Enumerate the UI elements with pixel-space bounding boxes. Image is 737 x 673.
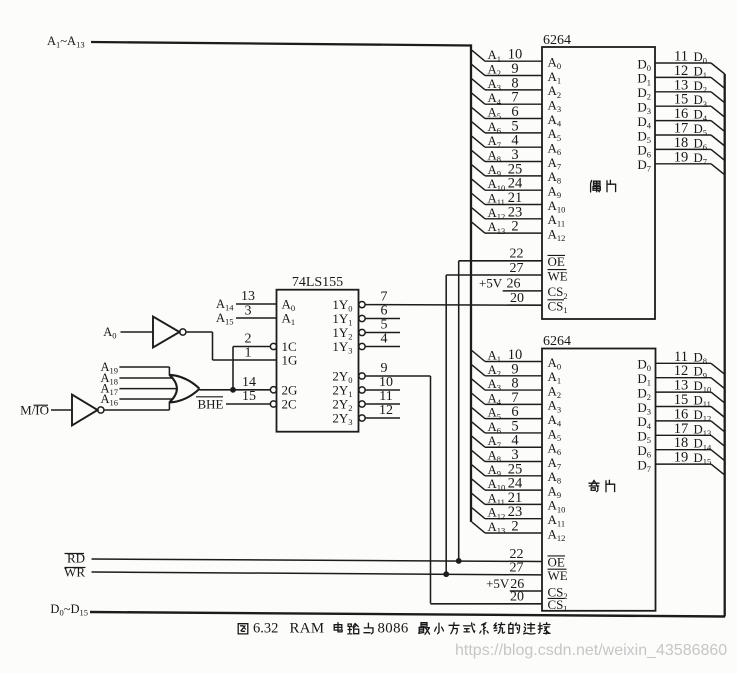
wire U3 2G pin 14 from OR gate output bbox=[200, 375, 277, 393]
wire U2 address input A3 pin 8 bbox=[472, 376, 542, 393]
svg-text:9: 9 bbox=[381, 361, 388, 376]
wire U1 WE to WR rail bbox=[445, 275, 447, 574]
pin label U2 A3 bbox=[548, 398, 562, 415]
svg-text:12: 12 bbox=[379, 403, 393, 418]
wire U2 data output D14 pin 18 bbox=[656, 435, 725, 461]
pin label U3 1Y0 bbox=[332, 297, 352, 314]
pin label U3 2Y3 bbox=[332, 411, 352, 428]
pin label U1 A1 bbox=[548, 69, 562, 86]
net label A18 bbox=[100, 371, 118, 387]
wire U1 OE pin 22 bbox=[459, 247, 542, 262]
node junction dot 1C/2G bbox=[230, 387, 236, 393]
wire U3 1C pin 2 bbox=[233, 332, 277, 350]
pin label U2 CS2 bbox=[548, 584, 568, 601]
svg-text:2G: 2G bbox=[282, 383, 298, 398]
wire U1 data output D4 pin 16 bbox=[655, 106, 725, 132]
wire A15 to U3 A1 pin 3 bbox=[216, 304, 277, 327]
wire U3 2Y3 pin 12 stub bbox=[359, 403, 400, 421]
wire RD rail to U2 OE bbox=[92, 559, 542, 562]
wire G3 output to OR gate G2 bbox=[104, 402, 169, 410]
svg-text:+5V: +5V bbox=[486, 576, 510, 591]
wire A16 to OR gate bbox=[119, 398, 172, 400]
watermark bbox=[455, 642, 727, 659]
pin label U1 A2 bbox=[548, 83, 562, 100]
wire U1 address input A5 pin 6 bbox=[472, 104, 542, 121]
pin label U2 A11 bbox=[548, 512, 566, 529]
pin label U2 D1 bbox=[637, 371, 651, 388]
net label A19 bbox=[100, 360, 118, 376]
pin label U2 A4 bbox=[548, 412, 562, 429]
svg-text:4: 4 bbox=[381, 332, 388, 347]
pin label U2 D3 bbox=[637, 400, 651, 417]
wire G1 output to U3 1G bbox=[186, 332, 213, 360]
pin label U2 D5 bbox=[637, 429, 651, 446]
pin label U1 CS1 bbox=[548, 299, 568, 316]
net label WR bbox=[64, 565, 85, 580]
svg-text:RAM: RAM bbox=[290, 621, 325, 637]
svg-text:2C: 2C bbox=[282, 397, 297, 412]
pin label U1 D4 bbox=[637, 114, 651, 131]
svg-text:20: 20 bbox=[510, 590, 524, 605]
svg-text:6264: 6264 bbox=[543, 33, 571, 48]
pin label U2 A5 bbox=[548, 426, 562, 443]
wire U3 1Y3 pin 4 stub bbox=[359, 332, 400, 350]
wire U3 2Y2 pin 11 stub bbox=[359, 389, 400, 407]
node junction WR / U1-WE bbox=[443, 571, 449, 577]
wire U1 data output D2 pin 13 bbox=[655, 77, 725, 103]
svg-text:6264: 6264 bbox=[543, 334, 571, 349]
pin label U2 A1 bbox=[548, 369, 562, 386]
net label RD bbox=[65, 551, 86, 566]
svg-text:27: 27 bbox=[510, 261, 524, 276]
svg-text:2: 2 bbox=[511, 219, 518, 235]
svg-text:https://blog.csdn.net/weixin_4: https://blog.csdn.net/weixin_43586860 bbox=[455, 642, 727, 659]
svg-text:BHE: BHE bbox=[198, 397, 224, 412]
pin label U2 D7 bbox=[637, 457, 651, 474]
pin label U2 A7 bbox=[548, 455, 562, 472]
caption figure title bbox=[238, 621, 550, 637]
svg-text:WE: WE bbox=[548, 268, 568, 283]
wire address bus A1~A13 horizontal bbox=[91, 42, 471, 46]
pin label U3 1Y3 bbox=[332, 339, 352, 356]
pin label U1 A4 bbox=[548, 112, 562, 129]
pin label U3 A0 bbox=[282, 297, 296, 314]
pin label U2 A12 bbox=[548, 526, 566, 543]
wire U2 OE pin 22 (on RD line) bbox=[510, 547, 524, 562]
wire U1 CS1 pin 20 from decoder 1Y0 bbox=[365, 291, 542, 306]
pin label U2 A8 bbox=[548, 469, 562, 486]
wire U1 address input A2 pin 9 bbox=[472, 61, 542, 78]
pin label U1 A9 bbox=[548, 183, 562, 200]
wire U2 data output D10 pin 13 bbox=[656, 378, 725, 404]
wire U2 address input A1 pin 10 bbox=[472, 347, 542, 364]
wire U2 data output D11 pin 15 bbox=[656, 392, 725, 418]
wire A0 to inverter G1 bbox=[121, 331, 154, 333]
wire U2 address input A8 pin 3 bbox=[472, 447, 542, 464]
wire U2 CS2 pin 26 with +5V bbox=[486, 576, 542, 592]
wire A18 to OR gate bbox=[119, 377, 172, 379]
wire U2 data output D9 pin 12 bbox=[656, 363, 725, 389]
wire U2 address input A6 pin 5 bbox=[472, 418, 542, 435]
wire U2 address input A2 pin 9 bbox=[472, 361, 542, 378]
pin label U3 1Y2 bbox=[332, 325, 352, 342]
inverter G3 (M/IO) bbox=[72, 395, 104, 426]
wire U2 address input A12 pin 23 bbox=[472, 504, 542, 521]
pin label U1 D3 bbox=[637, 100, 651, 117]
wire U1 address input A10 pin 24 bbox=[472, 176, 542, 193]
svg-text:26: 26 bbox=[507, 277, 521, 292]
pin label U3 2Y1 bbox=[332, 383, 352, 400]
wire A14 to U3 A0 pin 13 bbox=[216, 289, 277, 313]
svg-text:8086: 8086 bbox=[378, 621, 409, 637]
wire U1 data output D7 pin 19 bbox=[655, 149, 725, 175]
pin label U1 D0 bbox=[637, 56, 651, 73]
svg-text:19: 19 bbox=[674, 450, 689, 466]
svg-text:OE: OE bbox=[548, 254, 565, 269]
wire U1 address input A4 pin 7 bbox=[472, 90, 542, 107]
wire U1 data output D5 pin 17 bbox=[655, 121, 725, 147]
wire U1 data output D6 pin 18 bbox=[655, 135, 725, 161]
pin label U1 D5 bbox=[637, 128, 651, 145]
pin label U1 CS2 bbox=[548, 284, 568, 301]
wire U3 2Y1 pin 10 stub bbox=[359, 375, 400, 393]
wire U2 CS1 pin 20 from decoder 2Y0 bbox=[431, 590, 543, 605]
pin label U2 D0 bbox=[637, 357, 651, 374]
wire junction riser 1C to 2G node bbox=[232, 347, 234, 391]
wire data bus D0~D15 horizontal bbox=[90, 612, 725, 617]
RAM chip U2 6264 odd bank box bbox=[542, 334, 656, 611]
net label BHE bbox=[196, 397, 224, 412]
svg-text:74LS155: 74LS155 bbox=[292, 275, 343, 290]
pin label U2 A2 bbox=[548, 383, 562, 400]
pin label U2 D6 bbox=[637, 443, 651, 460]
svg-text:5: 5 bbox=[381, 318, 388, 333]
pin label U3 A1 bbox=[282, 311, 296, 328]
pin label U3 2Y2 bbox=[332, 397, 352, 414]
svg-text:WR: WR bbox=[64, 565, 85, 580]
pin label U2 D4 bbox=[637, 414, 651, 431]
wire U1 address input A1 pin 10 bbox=[472, 47, 542, 64]
pin label U2 D2 bbox=[637, 385, 651, 402]
svg-text:15: 15 bbox=[242, 389, 256, 404]
svg-text:6: 6 bbox=[381, 304, 388, 319]
pin label U1 D1 bbox=[637, 71, 651, 88]
wire U2 address input A7 pin 4 bbox=[472, 433, 542, 450]
pin label U3 1G bbox=[282, 353, 298, 368]
wire U1 data output D1 pin 12 bbox=[655, 63, 725, 89]
svg-text:22: 22 bbox=[510, 247, 524, 262]
wire U1 data output D0 pin 11 bbox=[655, 49, 725, 75]
wire U2 data output D12 pin 16 bbox=[656, 406, 725, 432]
pin label U1 A12 bbox=[548, 226, 566, 243]
svg-text:7: 7 bbox=[381, 290, 388, 305]
svg-text:1G: 1G bbox=[282, 353, 298, 368]
wire U2 address input A10 pin 24 bbox=[472, 476, 542, 493]
wire U2 address input A9 pin 25 bbox=[472, 461, 542, 478]
wire U1 WE pin 27 bbox=[446, 261, 542, 276]
net label D0~D15 bbox=[50, 602, 88, 618]
svg-text:3: 3 bbox=[245, 304, 252, 319]
wire U2 address input A11 pin 21 bbox=[472, 490, 542, 507]
wire U1 data output D3 pin 15 bbox=[655, 92, 725, 118]
pin label U1 A6 bbox=[548, 140, 562, 157]
net label M/IO bbox=[20, 403, 49, 418]
inverter G1 (A0) bbox=[153, 317, 186, 348]
pin label U2 OE bbox=[548, 555, 566, 570]
wire U1 address input A7 pin 4 bbox=[472, 133, 542, 150]
net label A16 bbox=[100, 392, 118, 408]
wire U1 address input A6 pin 5 bbox=[472, 118, 542, 135]
pin label U2 A0 bbox=[548, 355, 562, 372]
node junction RD / U1-OE bbox=[456, 558, 462, 564]
pin label U2 CS1 bbox=[548, 597, 568, 614]
wire data bus vertical trunk D0~D15 bbox=[724, 74, 726, 617]
wire U2 data output D8 pin 11 bbox=[656, 349, 725, 375]
wire U1 address input A3 pin 8 bbox=[472, 75, 542, 92]
wire WR rail to U2 WE bbox=[92, 572, 542, 575]
svg-text:11: 11 bbox=[379, 389, 392, 404]
svg-text:RD: RD bbox=[67, 551, 85, 566]
pin label U2 A10 bbox=[548, 498, 566, 515]
pin label U2 WE bbox=[548, 568, 568, 583]
svg-text:27: 27 bbox=[510, 560, 524, 575]
RAM chip U1 6264 even bank box bbox=[542, 33, 655, 319]
pin label U1 A5 bbox=[548, 126, 562, 143]
pin label U2 A9 bbox=[548, 483, 562, 500]
pin label U1 A3 bbox=[548, 97, 562, 114]
svg-text:10: 10 bbox=[379, 375, 393, 390]
pin label U1 D7 bbox=[637, 157, 651, 174]
wire U2 WE pin 27 (on WR line) bbox=[510, 560, 524, 575]
svg-text:20: 20 bbox=[510, 291, 524, 306]
pin label U1 A0 bbox=[548, 55, 562, 72]
wire U1 address input A11 pin 21 bbox=[472, 190, 542, 207]
wire U3 1Y2 pin 5 stub bbox=[359, 318, 400, 336]
wire U2 data output D13 pin 17 bbox=[656, 421, 725, 447]
wire U1 address input A8 pin 3 bbox=[472, 147, 542, 164]
pin label U1 D6 bbox=[637, 143, 651, 160]
wire U3 2Y0 pin 9 to U2 CS1 bbox=[359, 361, 431, 604]
svg-text:WE: WE bbox=[548, 568, 568, 583]
svg-text:1: 1 bbox=[245, 346, 252, 361]
wire U2 data output D15 pin 19 bbox=[656, 450, 725, 476]
svg-text:+5V: +5V bbox=[479, 276, 503, 291]
svg-text:19: 19 bbox=[674, 149, 689, 165]
pin label U1 OE bbox=[548, 254, 566, 269]
chip U2 label (odd bank) bbox=[589, 480, 599, 491]
pin label U1 A7 bbox=[548, 155, 562, 172]
net label A17 bbox=[100, 382, 118, 398]
wire U3 1Y1 pin 6 stub bbox=[359, 304, 400, 322]
wire M/IO to inverter G3 bbox=[51, 409, 72, 411]
wire U1 address input A9 pin 25 bbox=[472, 161, 542, 178]
wire U3 1Y0 pin 7 to U1 CS1 bbox=[359, 290, 388, 308]
wire U1 CS2 pin 26 with +5V bbox=[479, 276, 542, 292]
net label A0 bbox=[103, 325, 116, 341]
OR gate G2 (5-input) bbox=[169, 375, 199, 403]
pin label U1 D2 bbox=[637, 85, 651, 102]
wire U2 address input A4 pin 7 bbox=[472, 390, 542, 407]
wire address bus vertical trunk bbox=[470, 44, 472, 522]
pin label U1 A11 bbox=[548, 212, 566, 229]
wire U2 address input A13 pin 2 bbox=[472, 518, 542, 535]
svg-text:2: 2 bbox=[245, 332, 252, 347]
pin label U3 2G bbox=[282, 383, 298, 398]
pin label U3 1Y1 bbox=[332, 311, 352, 328]
decoder chip U3 74LS155 box bbox=[277, 275, 359, 432]
pin label U1 WE bbox=[548, 268, 568, 283]
svg-text:13: 13 bbox=[241, 289, 255, 304]
wire U1 address input A12 pin 23 bbox=[472, 204, 542, 221]
wire U2 address input A5 pin 6 bbox=[472, 404, 542, 421]
wire A17 to OR gate bbox=[119, 388, 176, 390]
pin label U3 2C bbox=[282, 397, 297, 412]
svg-text:2: 2 bbox=[511, 518, 518, 534]
wire BHE to U3 2C pin 15 bbox=[226, 389, 277, 407]
pin label U1 A8 bbox=[548, 169, 562, 186]
wire A19 to OR gate bbox=[119, 367, 169, 375]
wire U3 1G pin 1 from A0 inverter bbox=[213, 346, 277, 361]
pin label U3 2Y0 bbox=[332, 369, 352, 386]
svg-text:6.32: 6.32 bbox=[253, 621, 278, 637]
wire U1 address input A13 pin 2 bbox=[472, 219, 542, 236]
pin label U3 1C bbox=[282, 339, 297, 354]
chip U1 label (even bank) bbox=[591, 181, 601, 193]
pin label U2 A6 bbox=[548, 441, 562, 458]
pin label U1 A10 bbox=[548, 198, 566, 215]
wire U1 OE to RD rail bbox=[458, 261, 460, 561]
svg-text:14: 14 bbox=[242, 375, 256, 390]
